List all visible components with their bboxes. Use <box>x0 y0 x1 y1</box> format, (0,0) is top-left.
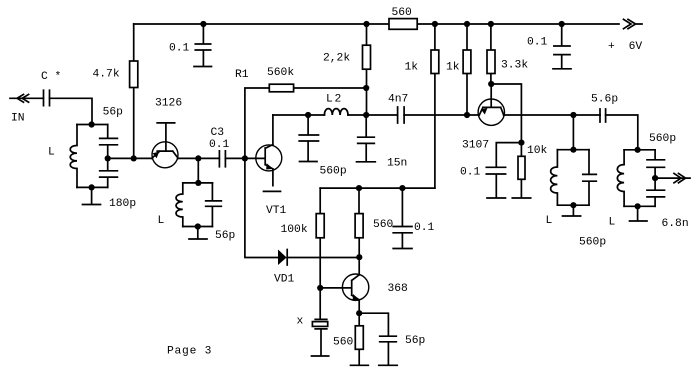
ground 560 emitter <box>351 364 369 366</box>
capacitor 56p emitter <box>380 336 397 365</box>
ground VT1 emitter <box>264 190 281 192</box>
node 0.1 mid top <box>399 185 405 191</box>
svg-text:Page 3: Page 3 <box>167 346 212 358</box>
svg-text:10k: 10k <box>527 145 548 157</box>
svg-text:0.1: 0.1 <box>414 222 435 234</box>
wire tank1 to Q1 <box>108 157 152 159</box>
node input arrow << <box>17 94 29 102</box>
node rail 0.1 right <box>559 21 565 27</box>
svg-text:4.7k: 4.7k <box>93 69 120 81</box>
svg-text:56p: 56p <box>215 230 236 242</box>
ground tank2 <box>189 227 207 240</box>
wire to 0.1 bypass <box>496 143 521 167</box>
ground 0.1 right rail <box>553 68 571 70</box>
capacitor 560p mid <box>299 115 318 161</box>
ground tank4 <box>630 206 648 221</box>
ground tank3 <box>563 205 581 216</box>
wire tank2 bottom <box>183 226 213 228</box>
ground 10k <box>512 197 530 199</box>
wire tank3 feed <box>572 115 574 150</box>
capacitor 0.1 rail <box>195 24 210 66</box>
capacitor 180p tank1 lower <box>100 158 118 187</box>
svg-text:3107: 3107 <box>462 140 489 152</box>
node output arrow >> <box>674 173 686 182</box>
resistor 560 mid <box>358 188 360 257</box>
svg-text:L: L <box>546 215 553 227</box>
svg-text:4n7: 4n7 <box>388 94 408 106</box>
node 560p cap junction <box>305 112 311 118</box>
wire input cap to tank top <box>50 98 93 124</box>
node rail 1k a <box>432 21 438 27</box>
capacitor 560p tank3 <box>583 150 597 206</box>
ground 0.1 3107 <box>487 197 506 199</box>
inductor L tank3 <box>551 150 558 206</box>
svg-text:56p: 56p <box>103 107 124 119</box>
svg-text:15n: 15n <box>387 158 407 170</box>
svg-text:560: 560 <box>392 7 413 19</box>
wire rail left leg down to bias node <box>133 24 135 158</box>
resistor 3.3k <box>490 24 492 84</box>
inductor L tank1 <box>70 125 77 188</box>
capacitor 5.6p <box>600 109 606 122</box>
wire mid rail y188 <box>320 187 435 189</box>
svg-text:VT1: VT1 <box>266 205 287 217</box>
wire tank3 bottom <box>557 204 589 206</box>
wire tank2 top <box>183 182 213 184</box>
node tank4 top <box>635 147 641 153</box>
svg-text:3.3k: 3.3k <box>501 60 528 72</box>
wire output <box>655 177 690 179</box>
svg-text:2,2k: 2,2k <box>323 53 350 65</box>
svg-text:560p: 560p <box>649 133 676 145</box>
wire 5.6p to tank4 <box>606 115 638 150</box>
ground 0.1 mid <box>393 248 412 250</box>
node 15n junction <box>363 112 369 118</box>
node supply arrow >> <box>624 19 643 28</box>
svg-text:6V: 6V <box>629 41 643 53</box>
svg-text:560: 560 <box>333 337 354 349</box>
capacitor 4n7 <box>398 107 405 123</box>
capacitor 56p tank2 <box>206 183 222 227</box>
wire Q1 collector to C3 <box>178 157 219 159</box>
node tank1 bottom <box>89 184 95 190</box>
svg-text:368: 368 <box>388 283 409 295</box>
node rail 1k b <box>464 21 470 27</box>
wire VD1 branch <box>245 158 278 257</box>
svg-text:2: 2 <box>335 94 342 106</box>
inductor L tank2 <box>176 183 183 227</box>
node 5.6p junction <box>570 112 576 118</box>
wire tank1 bottom <box>77 186 108 188</box>
transistor 3107 <box>478 84 504 125</box>
svg-text:560k: 560k <box>267 67 294 79</box>
ground crystal <box>312 355 329 357</box>
svg-text:+: + <box>608 41 615 53</box>
wire input line <box>10 97 43 99</box>
svg-text:R1: R1 <box>235 69 249 81</box>
svg-text:L: L <box>158 215 165 227</box>
ground 15n <box>357 161 376 163</box>
svg-text:L: L <box>48 147 55 159</box>
svg-text:1k: 1k <box>405 62 419 74</box>
crystal x <box>315 288 327 356</box>
svg-text:560: 560 <box>373 219 394 231</box>
svg-text:560p: 560p <box>579 237 606 249</box>
wire tank2 feed down <box>197 158 199 183</box>
wire top supply rail <box>134 23 619 25</box>
svg-text:3126: 3126 <box>155 98 182 110</box>
capacitor 15n <box>358 115 375 161</box>
wire main collector line <box>273 114 479 116</box>
svg-text:0.1: 0.1 <box>169 43 190 55</box>
node bias junction <box>131 155 137 161</box>
node 560 mid top <box>356 185 362 191</box>
svg-text:0.1: 0.1 <box>527 37 548 49</box>
wire VD1 to 368 <box>287 257 359 259</box>
inductor L tank4 <box>617 150 624 207</box>
resistor 560 emitter <box>358 313 360 365</box>
capacitor 0.1 right rail <box>554 24 570 68</box>
wire bias to 10k <box>491 84 521 143</box>
ground 0.1 rail <box>194 66 212 68</box>
wire tank3 top <box>557 149 589 151</box>
node tank3 bottom <box>570 202 576 208</box>
capacitor 560p tank4 <box>647 150 665 178</box>
ground 560p mid <box>300 161 318 163</box>
node 3107 base top <box>488 81 494 87</box>
node rail 2.2k <box>363 21 369 27</box>
resistor 100k <box>319 188 321 288</box>
svg-text:x: x <box>297 316 304 328</box>
wire tank4 bottom <box>624 205 655 207</box>
node tank2 top <box>195 180 201 186</box>
svg-text:0.1: 0.1 <box>460 167 481 179</box>
svg-text:0.1: 0.1 <box>209 139 230 151</box>
capacitor C* input <box>44 90 50 105</box>
resistor 2,2k <box>366 24 368 115</box>
svg-text:5.6p: 5.6p <box>591 94 618 106</box>
capacitor 0.1 3107 <box>486 167 505 197</box>
node 560k/2.2k junction <box>363 85 369 91</box>
ground 56p emitter <box>379 364 397 366</box>
resistor 10k <box>520 143 522 198</box>
svg-text:L: L <box>326 94 333 106</box>
node 368 base junction <box>317 285 323 291</box>
transistor VT1 <box>256 115 282 186</box>
svg-text:C *: C * <box>41 71 61 83</box>
node rail 0.1 cap <box>200 21 206 27</box>
wire R1 feedback <box>245 88 366 158</box>
ground tank1 <box>83 187 101 204</box>
svg-text:1k: 1k <box>446 62 460 74</box>
resistor 560 rail <box>389 19 417 30</box>
capacitor 6.8n tank4 <box>647 178 665 206</box>
svg-text:100k: 100k <box>281 224 308 236</box>
node VT1 base / R1 junction <box>242 155 248 161</box>
svg-text:L: L <box>609 217 616 229</box>
node tank3 top <box>570 147 576 153</box>
transistor 3126 <box>152 123 178 168</box>
wire tank1 top <box>77 124 108 126</box>
node tank1 mid <box>105 155 111 161</box>
svg-text:IN: IN <box>11 113 25 125</box>
wire 368 base <box>320 287 351 289</box>
resistor 1k a <box>434 24 436 188</box>
wire emitter to 56p <box>359 313 388 336</box>
node tank2 feed <box>195 155 201 161</box>
resistor 1k b <box>466 24 468 115</box>
wire 3107 emitter output <box>504 114 600 116</box>
resistor R1 560k <box>269 84 293 92</box>
node output tap <box>652 175 658 181</box>
node tank4 bottom <box>635 203 641 209</box>
node VD1/560/368 junction <box>356 254 362 260</box>
inductor L2 <box>324 109 348 115</box>
node 368 emitter <box>356 310 362 316</box>
svg-text:C3: C3 <box>211 127 225 139</box>
wire C3 to VT1 base <box>225 157 264 159</box>
svg-text:560p: 560p <box>320 166 347 178</box>
wire tank4 top <box>624 149 655 151</box>
svg-text:6.8n: 6.8n <box>662 218 689 230</box>
svg-text:180p: 180p <box>109 198 136 210</box>
diode VD1 <box>278 250 287 266</box>
node tank2 bottom <box>195 223 201 229</box>
svg-text:VD1: VD1 <box>274 274 295 286</box>
node 1k b bottom <box>464 112 470 118</box>
node tank1 top <box>89 121 95 127</box>
svg-text:56p: 56p <box>405 335 426 347</box>
node rail 3.3k <box>488 21 494 27</box>
capacitor C3 0.1 <box>219 151 225 167</box>
capacitor 0.1 mid <box>393 188 412 248</box>
transistor 368 <box>342 257 368 313</box>
capacitor 56p tank1 upper <box>100 125 118 159</box>
resistor 4.7k <box>130 61 138 88</box>
node 10k top <box>518 140 524 146</box>
